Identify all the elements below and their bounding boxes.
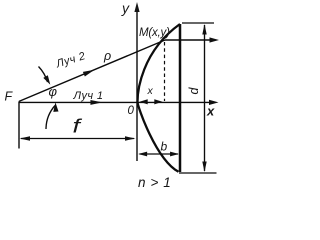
refracted ray 2 (horizontal out of lens): [165, 39, 213, 41]
svg-text:y: y: [121, 0, 130, 16]
ray 1 arrowhead: [90, 100, 102, 105]
svg-text:ρ: ρ: [103, 49, 111, 63]
angle arc phi upper part: [39, 67, 48, 83]
x axis arrowhead: [209, 100, 219, 105]
svg-text:φ: φ: [49, 84, 58, 99]
b dimension left arrowhead: [138, 152, 147, 157]
d dimension line: [204, 25, 206, 171]
d dimension bottom arrowhead: [202, 162, 206, 173]
angle arc phi lower part: [46, 106, 55, 130]
x axis (ray 1 from F through O to the right): [19, 101, 212, 103]
ray 2 (F to M): [19, 40, 165, 101]
svg-text:b: b: [161, 140, 168, 154]
svg-text:M(x,y): M(x,y): [139, 27, 170, 39]
x dimension left arrowhead: [140, 99, 148, 104]
dashed ordinate of point M: [164, 42, 166, 101]
d dimension top arrowhead: [202, 24, 206, 35]
svg-text:x: x: [206, 104, 215, 119]
f dimension right arrowhead: [125, 136, 136, 140]
svg-text:n > 1: n > 1: [138, 175, 171, 190]
d dimension bottom extension line: [179, 172, 217, 174]
svg-text:Луч 1: Луч 1: [73, 90, 104, 102]
b dimension right arrowhead: [170, 152, 179, 157]
f dimension left arrowhead: [20, 136, 31, 140]
y axis: [136, 8, 138, 161]
svg-text:x: x: [147, 85, 154, 97]
F extension line (below F): [18, 101, 20, 148]
refracted ray 2 arrowhead: [210, 37, 220, 42]
x dimension right arrowhead: [154, 99, 162, 104]
angle arc phi upper arrowhead: [43, 75, 52, 86]
f dimension line: [21, 138, 134, 140]
svg-text:0: 0: [128, 105, 135, 117]
b dimension line: [140, 153, 179, 155]
angle arc phi lower arrowhead: [53, 102, 59, 112]
lens convex surface: [138, 24, 181, 172]
d dimension top extension line: [182, 22, 214, 24]
y axis arrowhead: [134, 2, 139, 12]
ray 2 arrowhead: [83, 67, 96, 76]
svg-text:d: d: [187, 86, 201, 94]
lens flat side: [179, 24, 182, 172]
